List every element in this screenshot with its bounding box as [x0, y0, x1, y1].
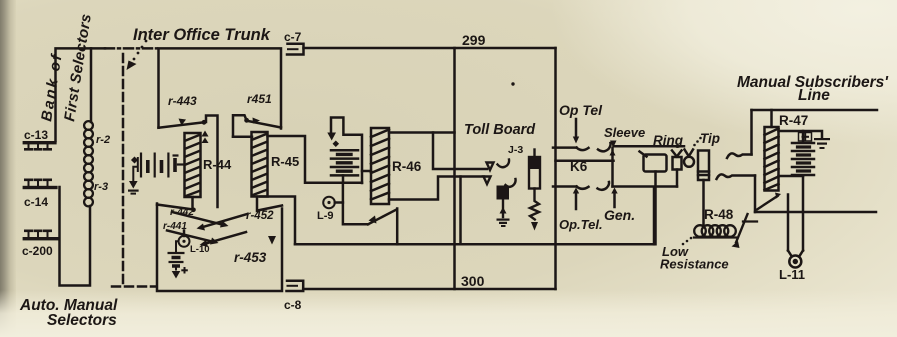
svg-text:Tip: Tip	[700, 131, 720, 146]
svg-text:R-45: R-45	[271, 154, 299, 169]
svg-text:c-7: c-7	[284, 30, 302, 44]
svg-text:R-44: R-44	[203, 157, 232, 172]
svg-text:r-2: r-2	[96, 134, 110, 146]
svg-text:300: 300	[461, 273, 485, 289]
svg-text:R-48: R-48	[704, 207, 734, 222]
svg-text:r-442: r-442	[170, 207, 194, 218]
svg-text:Inter Office Trunk: Inter Office Trunk	[133, 26, 271, 44]
svg-text:r-441: r-441	[163, 221, 187, 232]
svg-text:Selectors: Selectors	[47, 312, 117, 329]
svg-text:Sleeve: Sleeve	[604, 125, 645, 140]
svg-text:c-13: c-13	[24, 128, 48, 142]
svg-text:R-47: R-47	[779, 113, 808, 128]
svg-text:Resistance: Resistance	[660, 257, 729, 272]
svg-text:r-443: r-443	[168, 94, 197, 108]
svg-text:299: 299	[462, 32, 486, 48]
svg-text:L-9: L-9	[317, 210, 334, 222]
svg-text:Toll Board: Toll Board	[464, 122, 536, 138]
svg-text:r-3: r-3	[94, 181, 108, 193]
svg-text:L-10: L-10	[190, 244, 210, 255]
svg-text:c-8: c-8	[284, 298, 302, 312]
svg-text:R-46: R-46	[392, 159, 422, 174]
svg-text:J-3: J-3	[508, 144, 523, 156]
svg-text:r-453: r-453	[234, 250, 267, 265]
svg-text:Line: Line	[798, 87, 830, 104]
svg-text:c-200: c-200	[22, 244, 53, 258]
svg-text:r451: r451	[247, 92, 272, 106]
svg-text:Op.Tel.: Op.Tel.	[559, 217, 603, 232]
svg-text:Op Tel: Op Tel	[559, 102, 603, 118]
svg-text:Ring: Ring	[653, 133, 684, 148]
svg-text:r-452: r-452	[246, 210, 274, 222]
svg-text:L-11: L-11	[779, 267, 805, 282]
svg-text:Gen.: Gen.	[604, 207, 635, 223]
svg-text:c-14: c-14	[24, 195, 48, 209]
svg-text:K6: K6	[570, 159, 588, 174]
